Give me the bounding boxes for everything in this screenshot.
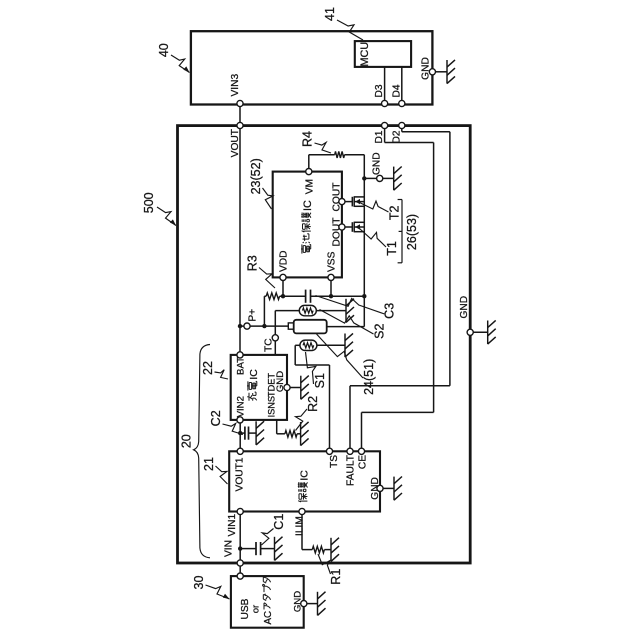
svg-text:41: 41 <box>323 7 337 21</box>
svg-text:23(52): 23(52) <box>249 158 263 194</box>
svg-text:T1: T1 <box>385 241 399 256</box>
svg-text:VIN1: VIN1 <box>227 514 238 537</box>
svg-text:500: 500 <box>142 192 156 213</box>
svg-text:40: 40 <box>157 43 171 57</box>
svg-text:VDD: VDD <box>279 250 290 272</box>
svg-text:D3: D3 <box>374 84 385 97</box>
svg-text:USB: USB <box>240 598 251 619</box>
svg-text:R3: R3 <box>246 255 260 271</box>
svg-text:ISNS: ISNS <box>267 396 277 417</box>
svg-text:FAULT: FAULT <box>346 455 357 486</box>
svg-text:VSS: VSS <box>327 251 338 272</box>
svg-text:AC: AC <box>263 611 274 625</box>
svg-text:TS: TS <box>329 455 340 468</box>
svg-text:26(53): 26(53) <box>405 214 419 250</box>
svg-text:R4: R4 <box>301 131 315 147</box>
svg-text:GND: GND <box>370 477 381 500</box>
svg-text:R2: R2 <box>306 396 320 412</box>
svg-text:S2: S2 <box>373 323 387 338</box>
svg-text:21: 21 <box>202 457 216 471</box>
svg-text:S1: S1 <box>313 373 327 388</box>
svg-text:P+: P+ <box>248 309 259 322</box>
svg-text:GND: GND <box>372 152 383 175</box>
svg-text:VIN: VIN <box>224 540 235 557</box>
svg-text:C2: C2 <box>209 410 223 426</box>
svg-text:IC: IC <box>302 200 314 211</box>
svg-text:VOUT: VOUT <box>230 129 241 157</box>
svg-text:VIN3: VIN3 <box>230 74 241 97</box>
svg-text:DOUT: DOUT <box>332 218 343 247</box>
svg-text:T2: T2 <box>388 205 402 220</box>
svg-text:CE: CE <box>357 455 368 469</box>
svg-text:or: or <box>251 605 262 613</box>
svg-text:VM: VM <box>304 179 315 194</box>
svg-text:C3: C3 <box>383 303 397 319</box>
svg-text:24(51): 24(51) <box>362 359 376 395</box>
svg-text:D2: D2 <box>391 130 402 143</box>
svg-text:C1: C1 <box>272 514 286 530</box>
svg-text:30: 30 <box>192 576 206 590</box>
svg-text:BAT: BAT <box>235 357 246 375</box>
svg-text:MCU: MCU <box>359 42 371 67</box>
svg-text:GND: GND <box>421 57 432 80</box>
svg-text:R1: R1 <box>329 569 343 585</box>
svg-text:VIN2: VIN2 <box>235 396 246 417</box>
svg-text:VOUT1: VOUT1 <box>234 457 245 491</box>
svg-text:IC: IC <box>298 470 310 481</box>
svg-text:ILIM: ILIM <box>295 516 306 536</box>
svg-text:GND: GND <box>275 371 286 392</box>
svg-text:GND: GND <box>293 591 304 612</box>
svg-text:IC: IC <box>248 369 260 380</box>
svg-text:20: 20 <box>180 434 194 448</box>
svg-text:D4: D4 <box>391 84 402 97</box>
svg-text:D1: D1 <box>374 130 385 143</box>
svg-text:GND: GND <box>459 296 470 319</box>
svg-text:COUT: COUT <box>332 183 343 212</box>
svg-text:TC: TC <box>264 338 275 352</box>
svg-text:22: 22 <box>201 361 215 375</box>
